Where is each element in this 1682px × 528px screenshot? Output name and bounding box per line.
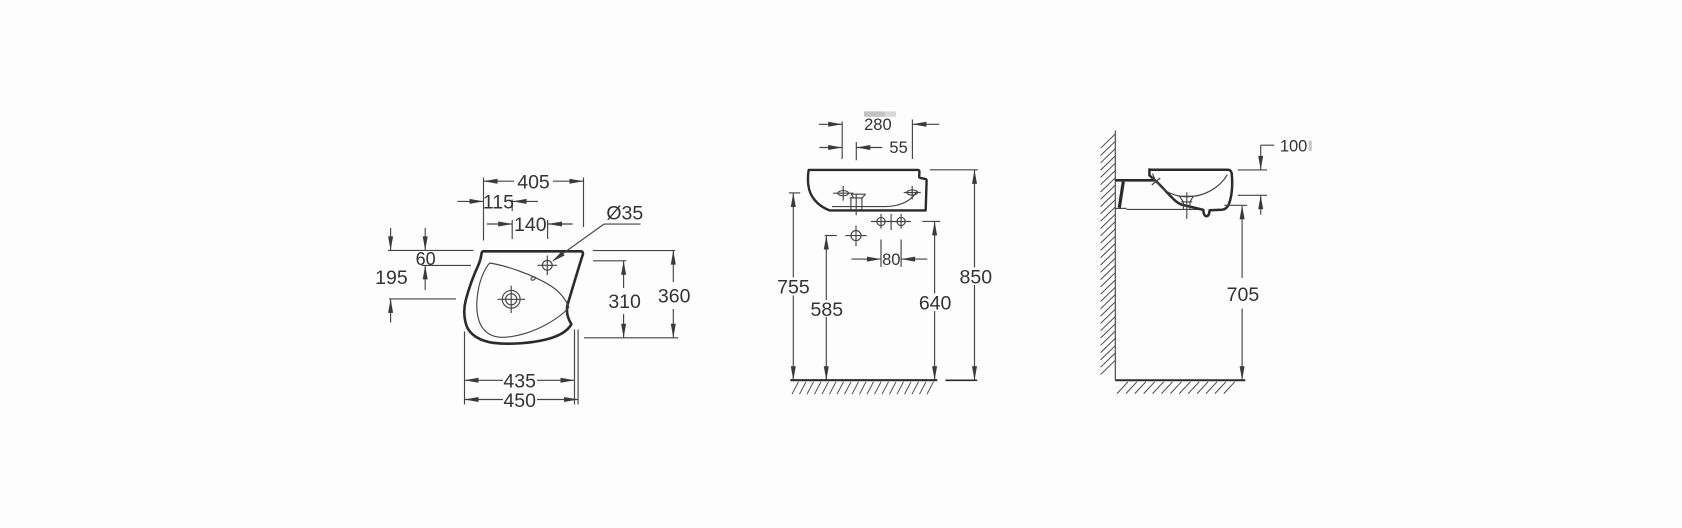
svg-text:755: 755 <box>777 277 810 299</box>
svg-text:195: 195 <box>375 267 408 289</box>
svg-text:140: 140 <box>514 214 547 236</box>
svg-text:60: 60 <box>416 249 436 269</box>
svg-text:100: 100 <box>1280 138 1308 156</box>
svg-text:450: 450 <box>503 390 536 412</box>
svg-text:310: 310 <box>608 291 641 313</box>
svg-text:Ø35: Ø35 <box>606 203 643 225</box>
svg-text:705: 705 <box>1227 284 1260 306</box>
svg-text:360: 360 <box>658 286 691 308</box>
svg-text:280: 280 <box>864 116 892 134</box>
svg-text:55: 55 <box>889 139 907 157</box>
svg-text:640: 640 <box>919 292 952 314</box>
svg-text:405: 405 <box>517 171 550 193</box>
svg-text:80: 80 <box>882 251 900 269</box>
svg-text:850: 850 <box>960 267 993 289</box>
svg-text:115: 115 <box>483 192 514 214</box>
svg-text:585: 585 <box>811 299 844 321</box>
